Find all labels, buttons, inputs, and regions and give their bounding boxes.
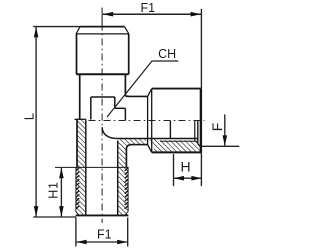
- hatch right wall: [117, 139, 201, 168]
- thread runout white gap: [145, 138, 156, 154]
- bottom male thread: [55, 167, 129, 215]
- svg-text:F: F: [209, 123, 225, 132]
- svg-text:F1: F1: [97, 228, 112, 242]
- dimension F1 top: [103, 9, 202, 89]
- dimension F1 bottom: [76, 218, 128, 247]
- side port: [117, 89, 201, 153]
- dimension H: [174, 152, 202, 186]
- hatch left wall: [76, 119, 86, 215]
- wire: horizontal centre line of side port: [88, 120, 205, 122]
- hex head: [76, 27, 129, 75]
- dimension L: [33, 27, 80, 217]
- dimension F: [202, 114, 240, 146]
- bore walls: [86, 119, 118, 215]
- svg-text:CH: CH: [158, 47, 176, 61]
- svg-text:H1: H1: [46, 181, 60, 199]
- dimension H1: [60, 168, 62, 217]
- svg-text:F1: F1: [141, 1, 156, 15]
- svg-text:L: L: [21, 113, 36, 120]
- wire: vertical centre line of body: [101, 8, 103, 27]
- hatch bottom-right wall: [118, 167, 128, 215]
- internal cavity window: [91, 97, 126, 121]
- thread teeth left: [75, 167, 77, 211]
- internal thread lines: [117, 138, 197, 140]
- thread teeth right: [127, 167, 129, 211]
- body below hex: [75, 74, 130, 167]
- svg-text:H: H: [181, 159, 191, 175]
- funnel curve: [102, 127, 117, 138]
